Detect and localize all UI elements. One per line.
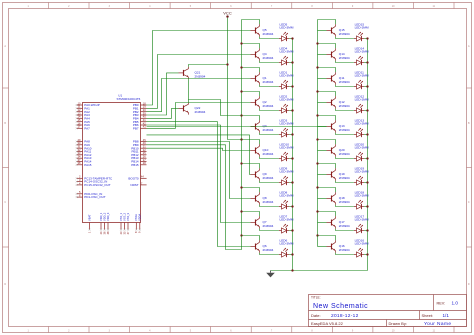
wire collector branch right row 3 xyxy=(316,66,335,72)
transistor Q22 2N3904 xyxy=(179,102,206,114)
LED LED17 LED-3MM xyxy=(354,215,369,234)
svg-text:Your Name: Your Name xyxy=(424,321,451,327)
LED LED2 LED-3MM xyxy=(279,95,294,114)
LED LED3 LED-3MM xyxy=(279,119,294,138)
svg-text:2N3904: 2N3904 xyxy=(339,56,350,60)
wire emitter to LED right row 5 xyxy=(336,133,354,135)
wire emitter to LED right row 3 xyxy=(336,85,354,87)
svg-text:2N3904: 2N3904 xyxy=(263,152,274,156)
wire emitter to LED left row 6 xyxy=(260,157,279,159)
wire right rail tail to Q16 base xyxy=(317,236,319,247)
svg-text:1/1: 1/1 xyxy=(443,313,450,318)
svg-text:LED-3MM: LED-3MM xyxy=(280,50,294,54)
wire collector branch left row 2 xyxy=(240,42,259,48)
transistor Q15 2N3904 xyxy=(327,24,350,36)
wire collector branch right row 9 xyxy=(316,210,335,216)
svg-text:NRST: NRST xyxy=(130,183,138,187)
svg-text:2N3904: 2N3904 xyxy=(339,80,350,84)
svg-text:C: C xyxy=(468,201,470,204)
wire collector branch right row 10 xyxy=(316,234,335,240)
wire PB2 to Q1 base xyxy=(147,79,251,112)
svg-text:VDD_2: VDD_2 xyxy=(102,212,106,221)
svg-text:PC15-OSC32_OUT: PC15-OSC32_OUT xyxy=(84,183,111,187)
svg-text:LED-3MM: LED-3MM xyxy=(355,50,369,54)
svg-text:LED-3MM: LED-3MM xyxy=(355,146,369,150)
transistor Q17 2N3904 xyxy=(327,216,350,228)
wire Q21 collector to VCC xyxy=(189,63,229,66)
transistor Q11 2N3904 xyxy=(327,72,350,84)
svg-text:2N3904: 2N3904 xyxy=(263,224,274,228)
svg-text:LED-3MM: LED-3MM xyxy=(280,26,294,30)
wire emitter to LED left row 9 xyxy=(260,229,279,231)
wire emitter to LED right row 10 xyxy=(336,253,354,255)
svg-text:2N3904: 2N3904 xyxy=(263,80,274,84)
svg-text:LED-3MM: LED-3MM xyxy=(355,218,369,222)
svg-text:LED-3MM: LED-3MM xyxy=(280,242,294,246)
svg-text:2018-12-12: 2018-12-12 xyxy=(331,313,359,319)
mcu U1 STM32F100C4T6 xyxy=(76,93,147,234)
transistor Q2 2N3904 xyxy=(251,96,274,108)
LED LED1 LED-3MM xyxy=(279,71,294,90)
wire right column base stub row 7 xyxy=(318,174,327,176)
svg-text:LED-3MM: LED-3MM xyxy=(355,170,369,174)
wire collector branch right row 4 xyxy=(316,90,335,96)
LED LED7 LED-3MM xyxy=(279,215,294,234)
wire collector branch left row 10 xyxy=(240,234,259,240)
wire collector branch right row 2 xyxy=(316,42,335,48)
LED LED18 LED-3MM xyxy=(354,191,369,210)
transistor Q16 2N3904 xyxy=(327,240,350,252)
svg-text:PD1-OSC_OUT: PD1-OSC_OUT xyxy=(84,195,106,199)
wire Q22 collector xyxy=(189,100,242,116)
transistor Q20 2N3904 xyxy=(327,144,350,156)
wire LED cathode to rail right row 6 xyxy=(364,157,369,159)
wire right column base stub row 9 xyxy=(318,222,327,224)
LED LED11 LED-3MM xyxy=(354,71,369,90)
ground symbol xyxy=(266,271,275,278)
wire PB3 to Q21 base xyxy=(147,73,179,115)
wire collector branch left row 4 xyxy=(240,90,259,96)
wire emitter to LED right row 7 xyxy=(336,181,354,183)
svg-text:Date:: Date: xyxy=(311,313,321,318)
wire right column base stub row 4 xyxy=(318,102,327,104)
svg-text:2N3904: 2N3904 xyxy=(263,200,274,204)
transistor Q21 2N3904 xyxy=(179,67,206,79)
transistor Q4 2N3904 xyxy=(251,48,274,60)
wire to Q10 base xyxy=(147,148,251,150)
wire PB0 to Q5 base xyxy=(147,31,251,106)
wire collector branch right row 7 xyxy=(316,162,335,168)
LED cathode rail left column xyxy=(292,39,294,271)
LED LED19 LED-3MM xyxy=(354,167,369,186)
wire collector branch right row 1 xyxy=(318,20,336,25)
svg-text:BOOT0: BOOT0 xyxy=(128,176,139,180)
wire LED cathode to rail right row 4 xyxy=(364,109,369,111)
wire emitter to LED right row 1 xyxy=(336,37,354,39)
transistor Q9 2N3904 xyxy=(251,168,274,180)
svg-text:PA15: PA15 xyxy=(84,163,91,167)
svg-text:LED-3MM: LED-3MM xyxy=(280,194,294,198)
wire Q21 emitter down xyxy=(188,79,190,100)
svg-text:LED-3MM: LED-3MM xyxy=(280,98,294,102)
LED LED10 LED-3MM xyxy=(279,143,294,162)
wire LED cathode to rail left row 6 xyxy=(289,157,294,159)
wire LED cathode to rail left row 9 xyxy=(289,229,294,231)
power flag VCC xyxy=(223,11,232,18)
svg-text:2N3904: 2N3904 xyxy=(339,152,350,156)
wire PB8 to Q8 base xyxy=(147,142,251,199)
svg-text:PB7: PB7 xyxy=(133,126,139,130)
svg-text:2N3904: 2N3904 xyxy=(263,104,274,108)
wire to Q3 and Q13 base xyxy=(147,126,327,128)
svg-text:VSS_3: VSS_3 xyxy=(126,212,130,221)
wire right column base stub row 8 xyxy=(318,198,327,200)
wire right column base stub row 3 xyxy=(318,78,327,80)
svg-text:LED-3MM: LED-3MM xyxy=(280,170,294,174)
title block xyxy=(309,295,467,328)
wire PB7 to Q2 base xyxy=(147,103,251,129)
svg-text:D: D xyxy=(468,283,470,286)
wire LED cathode to rail left row 1 xyxy=(289,37,294,39)
wire LED cathode to rail left row 8 xyxy=(289,205,294,207)
svg-text:D: D xyxy=(4,283,6,286)
LED LED12 LED-3MM xyxy=(354,95,369,114)
transistor Q7 2N3904 xyxy=(251,216,274,228)
svg-text:PB15: PB15 xyxy=(131,163,139,167)
svg-text:2N3904: 2N3904 xyxy=(339,224,350,228)
wire collector branch left row 7 xyxy=(240,162,259,168)
svg-text:VDD_1: VDD_1 xyxy=(99,212,103,221)
svg-text:VDD_3: VDD_3 xyxy=(106,212,110,221)
wire emitter to LED left row 2 xyxy=(260,61,279,63)
svg-text:2N3904: 2N3904 xyxy=(195,74,206,78)
wire PB4 to Q22 base xyxy=(147,108,179,118)
wire LED cathode to rail left row 7 xyxy=(289,181,294,183)
svg-text:2N3904: 2N3904 xyxy=(339,128,350,132)
wire emitter to LED left row 7 xyxy=(260,181,279,183)
transistor Q1 2N3904 xyxy=(251,72,274,84)
svg-text:LED-3MM: LED-3MM xyxy=(355,98,369,102)
wire LED cathode to rail right row 10 xyxy=(364,253,369,255)
svg-text:2N3904: 2N3904 xyxy=(339,176,350,180)
svg-text:LED-3MM: LED-3MM xyxy=(280,122,294,126)
svg-text:2N3904: 2N3904 xyxy=(263,56,274,60)
transistor Q6 2N3904 xyxy=(251,240,274,252)
LED LED9 LED-3MM xyxy=(279,167,294,186)
svg-text:TITLE:: TITLE: xyxy=(311,296,321,300)
wire collector branch left row 6 xyxy=(240,138,259,144)
wire PB5 to Q6 base xyxy=(147,122,251,247)
transistor Q14 2N3904 xyxy=(327,48,350,60)
wire VCC feed xyxy=(228,18,242,140)
wire LED cathode to rail left row 5 xyxy=(289,133,294,135)
svg-text:2N3904: 2N3904 xyxy=(263,176,274,180)
wire LED cathode to rail right row 5 xyxy=(364,133,369,135)
wire emitter to LED left row 10 xyxy=(260,253,279,255)
svg-text:VDDA: VDDA xyxy=(138,214,142,221)
svg-text:LED-3MM: LED-3MM xyxy=(355,242,369,246)
LED cathode rail right column xyxy=(367,39,369,271)
svg-text:STM32F100C4T6: STM32F100C4T6 xyxy=(117,97,141,101)
wire collector branch right row 8 xyxy=(316,186,335,192)
wire right column base stub row 1 xyxy=(318,30,327,32)
wire emitter to LED left row 3 xyxy=(260,85,279,87)
svg-text:PA7: PA7 xyxy=(84,126,90,130)
svg-text:LED-3MM: LED-3MM xyxy=(355,194,369,198)
wire emitter to LED right row 8 xyxy=(336,205,354,207)
wire LED cathode to rail right row 8 xyxy=(364,205,369,207)
wire LED cathode to rail right row 2 xyxy=(364,61,369,63)
wire ground bus xyxy=(271,269,368,271)
wire LED cathode to rail left row 2 xyxy=(289,61,294,63)
wire emitter to LED right row 9 xyxy=(336,229,354,231)
wire emitter to LED right row 6 xyxy=(336,157,354,159)
VCC rail left column xyxy=(241,20,243,236)
svg-text:LED-3MM: LED-3MM xyxy=(355,122,369,126)
svg-text:LED-3MM: LED-3MM xyxy=(280,146,294,150)
wire LED cathode to rail left row 10 xyxy=(289,253,294,255)
wire LED cathode to rail right row 9 xyxy=(364,229,369,231)
LED LED16 LED-3MM xyxy=(354,239,369,258)
wire collector branch left row 9 xyxy=(240,210,259,216)
svg-text:LED-3MM: LED-3MM xyxy=(280,74,294,78)
svg-text:2N3904: 2N3904 xyxy=(339,200,350,204)
VCC rail right column xyxy=(317,20,319,236)
wire PB10 to Q9 base xyxy=(147,135,251,175)
wire emitter to LED right row 2 xyxy=(336,61,354,63)
wire right column base stub row 6 xyxy=(318,150,327,152)
LED LED13 LED-3MM xyxy=(354,119,369,138)
svg-text:VBAT: VBAT xyxy=(87,214,91,221)
transistor Q13 2N3904 xyxy=(327,120,350,132)
svg-text:2N3904: 2N3904 xyxy=(263,248,274,252)
wire collector branch left row 8 xyxy=(240,186,259,192)
wire LED cathode to rail left row 3 xyxy=(289,85,294,87)
wire LED cathode to rail right row 3 xyxy=(364,85,369,87)
LED LED14 LED-3MM xyxy=(354,47,369,66)
svg-text:2N3904: 2N3904 xyxy=(339,248,350,252)
transistor Q5 2N3904 xyxy=(251,24,274,36)
wire right column base stub row 5 xyxy=(318,126,327,128)
svg-text:2N3904: 2N3904 xyxy=(195,110,206,114)
wire LED cathode to rail left row 4 xyxy=(289,109,294,111)
wire emitter to LED left row 8 xyxy=(260,205,279,207)
svg-text:New Schematic: New Schematic xyxy=(313,303,368,310)
wire emitter to LED left row 5 xyxy=(260,133,279,135)
LED LED6 LED-3MM xyxy=(279,239,294,258)
wire PB1 to Q4 base xyxy=(147,55,251,109)
wire collector branch left row 5 xyxy=(240,114,259,120)
svg-text:VSS_1: VSS_1 xyxy=(119,212,123,221)
wire emitter to LED right row 4 xyxy=(336,109,354,111)
svg-text:LED-3MM: LED-3MM xyxy=(355,26,369,30)
LED LED15 LED-3MM xyxy=(354,23,369,42)
wire collector branch right row 5 xyxy=(316,114,335,120)
svg-text:2N3904: 2N3904 xyxy=(263,128,274,132)
svg-text:1.0: 1.0 xyxy=(452,301,459,306)
wire right column base stub row 2 xyxy=(318,54,327,56)
LED LED4 LED-3MM xyxy=(279,47,294,66)
svg-text:LED-3MM: LED-3MM xyxy=(280,218,294,222)
svg-text:Sheet:: Sheet: xyxy=(422,313,434,318)
svg-text:VSS_2: VSS_2 xyxy=(122,212,126,221)
svg-text:2N3904: 2N3904 xyxy=(339,32,350,36)
wire collector branch left row 3 xyxy=(240,66,259,72)
wire collector branch left row 1 xyxy=(242,20,260,25)
wire collector branch right row 6 xyxy=(316,138,335,144)
svg-text:Drawn By:: Drawn By: xyxy=(389,321,407,326)
transistor Q19 2N3904 xyxy=(327,168,350,180)
LED LED20 LED-3MM xyxy=(354,143,369,162)
transistor Q12 2N3904 xyxy=(327,96,350,108)
svg-text:VSSA: VSSA xyxy=(134,214,138,221)
svg-text:EasyEDA V5.8.22: EasyEDA V5.8.22 xyxy=(311,321,344,326)
LED LED8 LED-3MM xyxy=(279,191,294,210)
wire emitter to LED left row 1 xyxy=(260,37,279,39)
svg-text:VCC: VCC xyxy=(223,11,232,16)
transistor Q10 2N3904 xyxy=(251,144,274,156)
wire LED cathode to rail right row 7 xyxy=(364,181,369,183)
transistor Q3 2N3904 xyxy=(251,120,274,132)
wire PB6 to Q7 base xyxy=(147,125,251,223)
LED LED5 LED-3MM xyxy=(279,23,294,42)
svg-text:LED-3MM: LED-3MM xyxy=(355,74,369,78)
wire LED cathode to rail right row 1 xyxy=(364,37,369,39)
wire right column base stub row 10 xyxy=(318,246,327,248)
svg-text:2N3904: 2N3904 xyxy=(263,32,274,36)
wire PB9 rail bottom feed xyxy=(147,145,242,250)
svg-text:REV:: REV: xyxy=(437,302,446,306)
transistor Q18 2N3904 xyxy=(327,192,350,204)
wire emitter to LED left row 4 xyxy=(260,109,279,111)
svg-text:2N3904: 2N3904 xyxy=(339,104,350,108)
transistor Q8 2N3904 xyxy=(251,192,274,204)
svg-text:C: C xyxy=(4,201,6,204)
